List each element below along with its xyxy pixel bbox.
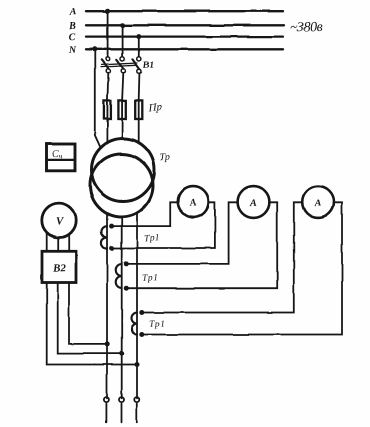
svg-text:Пр: Пр <box>147 102 163 115</box>
switch B1 pole 1 blade <box>101 60 108 69</box>
wire fuse1 to transformer <box>106 119 108 144</box>
current transformer Tr1 coil on phase C <box>132 313 138 335</box>
wire tap A down <box>107 11 109 56</box>
node tap B <box>120 23 125 28</box>
svg-text:А: А <box>188 197 196 208</box>
wire tap B down <box>122 25 124 56</box>
wire pole1 to fuse1 <box>106 73 109 119</box>
node CT2 bottom <box>124 286 129 291</box>
switch B1 linkage bar upper <box>101 63 137 65</box>
node CT2 top <box>124 261 129 266</box>
wire phase A vertical <box>106 214 108 399</box>
wire B2 to phase B <box>58 283 122 354</box>
wire phase B vertical <box>121 217 123 398</box>
wire fuse3 to transformer <box>138 119 140 144</box>
node tap A <box>105 9 110 14</box>
switch B1 pole 1 bottom contact <box>106 69 110 73</box>
ammeter A3 <box>302 186 334 218</box>
svg-text:N: N <box>68 45 77 56</box>
voltmeter V <box>42 203 76 237</box>
switch B1 pole 1 top contact <box>106 57 110 61</box>
wire tap C down <box>138 37 140 57</box>
svg-text:~380в: ~380в <box>290 20 323 36</box>
switch box B2 <box>42 251 76 282</box>
terminal phase B <box>119 397 124 402</box>
switch B1 pole 2 blade <box>116 60 123 69</box>
node tap N <box>92 47 97 52</box>
ammeter A1 <box>178 186 209 217</box>
svg-text:В1: В1 <box>142 60 155 71</box>
terminal phase C <box>134 397 139 402</box>
svg-text:Тр1: Тр1 <box>149 319 166 330</box>
wire B2 to phase A <box>69 283 107 344</box>
svg-text:V: V <box>56 215 65 227</box>
bus line C <box>86 35 283 37</box>
node B2-A junction <box>105 341 110 346</box>
node CT1 top <box>109 224 114 229</box>
node CT1 bottom <box>109 246 114 251</box>
wire A1 left to CT1 top <box>112 202 178 226</box>
svg-text:А: А <box>249 198 257 209</box>
wire through fuse2 <box>121 100 123 119</box>
current transformer Tr1 coil on phase A <box>101 226 107 248</box>
transformer Tr secondary circle <box>90 154 153 217</box>
svg-text:А: А <box>313 198 321 209</box>
svg-text:C: C <box>68 32 75 43</box>
svg-text:Тр: Тр <box>159 152 170 164</box>
transformer Tr primary circle <box>92 139 155 202</box>
node tap C <box>136 34 141 39</box>
wire pole3 to fuse3 <box>138 73 141 119</box>
terminal tail C <box>136 404 138 423</box>
wire pole2 to fuse2 <box>122 73 123 119</box>
wire V to B2 right <box>68 234 70 251</box>
node CT3 top <box>139 310 144 315</box>
switch B1 pole 3 blade <box>132 59 139 69</box>
node CT3 bottom <box>139 332 144 337</box>
svg-text:Тр1: Тр1 <box>144 233 161 244</box>
terminal phase A <box>104 397 109 402</box>
svg-text:B: B <box>68 21 76 32</box>
bus line A <box>86 10 283 12</box>
wire fuse2 to transformer <box>121 119 123 139</box>
wire V to B2 middle <box>57 237 59 251</box>
terminal tail A <box>105 404 107 423</box>
counter box Sch divider <box>47 159 76 161</box>
switch B1 pole 2 top contact <box>121 57 125 61</box>
svg-text:Сч: Сч <box>52 149 63 161</box>
wire A2 left to CT2 top <box>126 202 237 264</box>
switch B1 linkage bar lower <box>101 65 137 67</box>
svg-text:Тр1: Тр1 <box>142 273 159 284</box>
wire through fuse1 <box>106 100 108 119</box>
node B2-B junction <box>119 351 124 356</box>
wire B2 to phase C <box>47 283 137 365</box>
current transformer Tr1 coil on phase B <box>116 264 122 288</box>
wire phase C vertical <box>136 213 138 398</box>
wire A3 left to CT3 top <box>142 202 302 312</box>
wire through fuse3 <box>138 100 140 119</box>
fuse Pr 2 <box>118 100 125 119</box>
wire V to B2 left <box>46 232 48 251</box>
terminal tail B <box>121 404 123 423</box>
switch B1 pole 3 bottom contact <box>137 69 141 73</box>
ammeter A2 <box>238 186 270 218</box>
svg-text:В2: В2 <box>52 262 67 275</box>
fuse Pr 1 <box>104 100 111 119</box>
fuse Pr 3 <box>135 100 142 119</box>
wire A3 right to CT3 bottom <box>142 202 342 334</box>
wire A1 right to CT1 bottom <box>112 202 215 248</box>
bus line B <box>86 24 284 26</box>
switch B1 pole 3 top contact <box>137 57 141 61</box>
node B2-C junction <box>135 362 140 367</box>
wire N to transformer <box>95 49 101 148</box>
svg-text:A: A <box>69 7 77 18</box>
bus line N <box>86 48 283 50</box>
counter box Sch <box>47 144 76 171</box>
switch B1 pole 2 bottom contact <box>121 69 125 73</box>
wire A2 right to CT2 bottom <box>126 202 277 288</box>
